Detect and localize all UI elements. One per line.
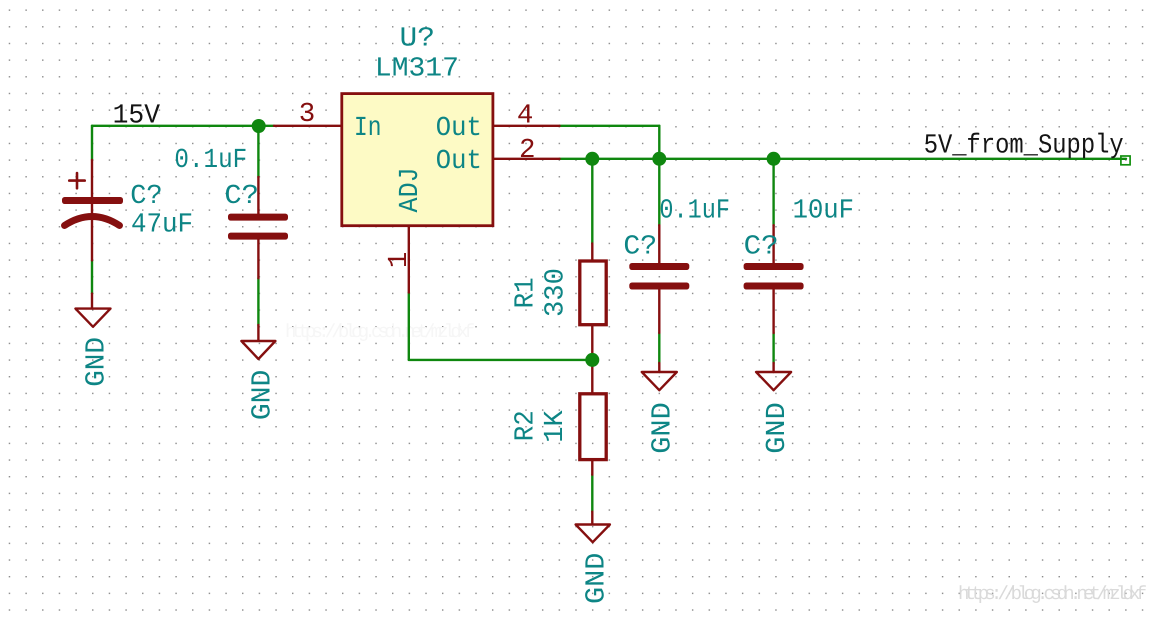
wire 15V horizontal — [92, 125, 274, 127]
wire C3 to GND4 — [658, 333, 660, 363]
svg-text:https://blog.csdn.net/mzldxf: https://blog.csdn.net/mzldxf — [958, 583, 1147, 605]
R1 bottom pin — [591, 326, 593, 360]
svg-text:U?: U? — [400, 24, 436, 55]
R2 top pin — [591, 360, 593, 394]
wire junction drop to C2 — [257, 126, 259, 177]
svg-text:3: 3 — [299, 99, 316, 130]
svg-text:1: 1 — [384, 252, 415, 269]
svg-text:GND: GND — [247, 370, 278, 421]
svg-text:1K: 1K — [540, 410, 571, 443]
wire R2 to GND3 — [591, 475, 593, 512]
wire down to R1 — [591, 159, 593, 244]
wire C4 to GND5 — [772, 333, 774, 363]
svg-text:GND: GND — [648, 402, 679, 454]
C3 gnd pin — [658, 363, 660, 372]
pin 4 wire — [492, 125, 559, 127]
capacitor C1 plus sign — [69, 173, 84, 188]
svg-text:R2: R2 — [511, 410, 542, 441]
svg-text:5V_from_Supply: 5V_from_Supply — [924, 131, 1124, 162]
svg-text:10uF: 10uF — [793, 195, 854, 226]
wire down to C3 — [658, 159, 660, 225]
C4 bottom pin — [772, 290, 774, 334]
svg-text:47uF: 47uF — [131, 210, 193, 241]
R1 top pin — [591, 244, 593, 261]
svg-text:GND: GND — [581, 553, 612, 604]
ground GND5 — [756, 372, 791, 390]
wire left vertical to C1 — [91, 126, 93, 160]
C4 gnd pin — [772, 363, 774, 372]
svg-text:Out: Out — [436, 113, 482, 144]
C1 pin through — [91, 160, 93, 260]
resistor R1 body — [580, 261, 606, 325]
pin 3 wire — [274, 125, 342, 127]
C3 bottom pin — [658, 290, 660, 334]
svg-text:4: 4 — [517, 101, 534, 132]
C2 top pin — [257, 177, 259, 214]
svg-text:15V: 15V — [113, 101, 161, 132]
C1 lower pin to GND — [91, 294, 93, 309]
pin 1 ADJ wire — [408, 225, 410, 292]
svg-text:https://blog.csdn.net/mzldxf: https://blog.csdn.net/mzldxf — [285, 321, 475, 343]
svg-text:0.1uF: 0.1uF — [174, 145, 247, 176]
wire out pin4 down — [658, 126, 660, 159]
svg-text:2: 2 — [519, 135, 536, 166]
ground GND1 — [75, 309, 110, 327]
wire C2 to GND2 — [257, 278, 259, 325]
capacitor C1 curved plate — [65, 217, 120, 226]
capacitor C4 plates — [744, 263, 804, 270]
ground GND3 — [576, 525, 610, 543]
C4 top pin — [772, 225, 774, 263]
junction node out C4 — [767, 152, 781, 166]
svg-text:C?: C? — [744, 231, 779, 262]
junction node 15V — [252, 119, 266, 133]
wire C1 to GND1 — [91, 260, 93, 293]
pin 2 wire — [492, 158, 559, 160]
wire ADJ horizontal to junction — [409, 359, 593, 361]
C3 top pin — [658, 225, 660, 263]
R2 gnd pin — [591, 512, 593, 525]
svg-text:In: In — [354, 113, 382, 144]
svg-text:GND: GND — [82, 337, 113, 387]
resistor R2 body — [580, 394, 606, 460]
R2 bottom pin — [591, 461, 593, 475]
op-amp body U1 LM317 — [342, 94, 493, 226]
svg-text:330: 330 — [540, 268, 571, 317]
wire out pin4 top — [560, 125, 660, 127]
C2 lower pin to GND — [257, 325, 259, 341]
wire output row — [560, 158, 1127, 160]
svg-text:0.1uF: 0.1uF — [659, 195, 730, 226]
capacitor C1 plate + — [62, 197, 123, 204]
junction node out R1 — [585, 152, 599, 166]
svg-text:ADJ: ADJ — [395, 167, 426, 212]
junction node out C3 — [652, 152, 666, 166]
svg-text:Out: Out — [436, 146, 482, 177]
svg-text:C?: C? — [623, 231, 657, 262]
svg-text:C?: C? — [130, 181, 163, 212]
svg-text:LM317: LM317 — [375, 53, 459, 84]
C2 bottom pin — [257, 240, 259, 279]
capacitor C2 plates — [228, 214, 288, 221]
svg-text:GND: GND — [762, 402, 793, 454]
svg-text:C?: C? — [224, 181, 259, 212]
capacitor C3 plates — [629, 263, 689, 270]
ground GND2 — [241, 341, 275, 359]
wire ADJ vertical — [408, 293, 410, 360]
wire down to C4 — [772, 159, 774, 225]
node end square 5V_from_Supply — [1121, 156, 1130, 165]
ground GND4 — [642, 372, 677, 390]
junction node ADJ — [585, 353, 599, 367]
svg-text:R1: R1 — [510, 277, 541, 308]
